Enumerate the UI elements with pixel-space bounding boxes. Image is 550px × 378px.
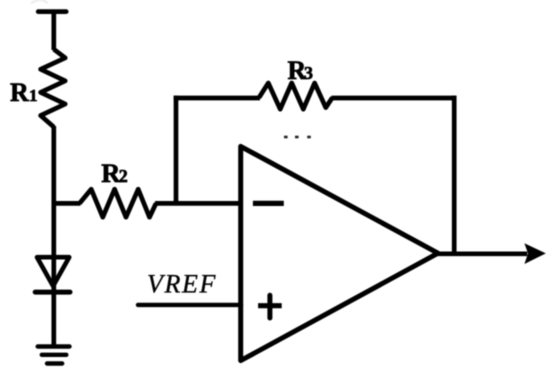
svg-text:VREF: VREF xyxy=(147,270,217,299)
wire: node to R2 xyxy=(52,201,81,206)
wire: VREF to op-amp non-inverting input xyxy=(138,303,241,307)
output arrowhead xyxy=(524,243,545,264)
svg-text:R: R xyxy=(10,78,29,107)
op-amp minus sign xyxy=(253,201,284,206)
wire: op-amp output xyxy=(437,252,527,257)
ground xyxy=(38,347,70,364)
resistor R2 xyxy=(80,189,157,217)
label R2 xyxy=(101,158,128,188)
ellipsis dashes artifact xyxy=(284,136,311,139)
wire: R2 to op-amp inverting input xyxy=(155,201,241,206)
wire: terminal to R1 xyxy=(51,12,56,50)
svg-text:1: 1 xyxy=(29,86,38,105)
supply terminal bar xyxy=(38,9,66,14)
label R3 xyxy=(288,56,314,85)
diode cathode bar xyxy=(35,290,70,295)
faint cropped arc artifact top-left xyxy=(31,0,48,3)
wire: through diode to ground (left rail) xyxy=(51,126,56,347)
op-amp U1 xyxy=(241,146,438,360)
label R1 xyxy=(10,78,38,107)
resistor R3 xyxy=(259,83,332,109)
wire: top feedback horizontal left segment xyxy=(174,96,260,101)
wire: feedback down to output xyxy=(452,96,457,254)
wire: top feedback horizontal right segment xyxy=(332,96,457,101)
resistor R1 xyxy=(41,49,66,127)
diode D1 xyxy=(37,257,69,286)
svg-text:2: 2 xyxy=(119,166,128,186)
svg-text:3: 3 xyxy=(304,63,313,83)
wire: feedback tap vertical xyxy=(174,96,179,204)
op-amp plus sign xyxy=(258,303,282,308)
